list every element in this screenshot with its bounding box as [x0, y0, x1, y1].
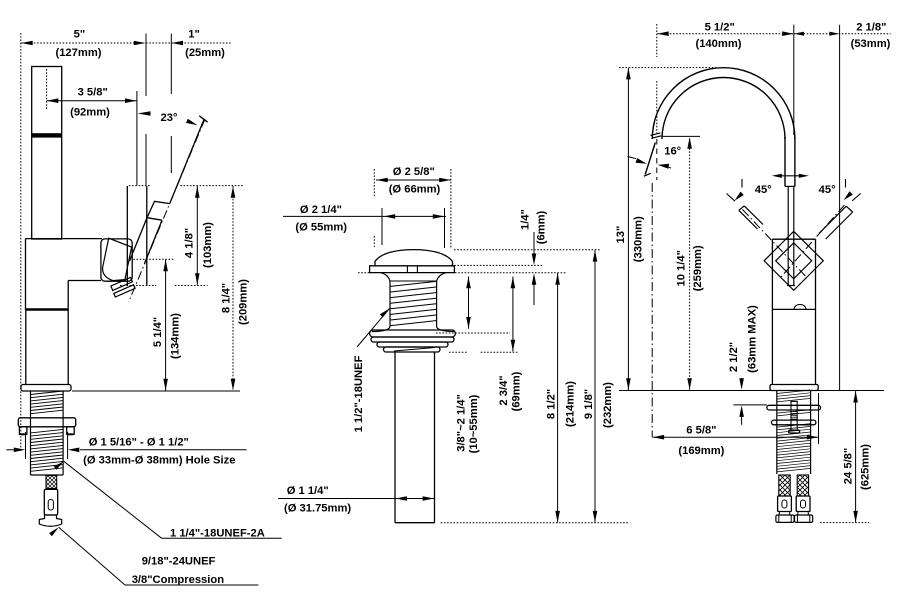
fig1 dim 4-1/8 line [196, 186, 198, 285]
fig3 gooseneck inner arc [662, 78, 785, 140]
fig2 dim 2-5/8 line [376, 179, 451, 181]
fig3 spout tip break lines [651, 133, 661, 136]
fig1 hole size tick left [25, 432, 27, 459]
fig3 left hose connector [778, 496, 792, 512]
svg-text:(Ø 66mm): (Ø 66mm) [389, 184, 441, 196]
fig1 extension line x146 [145, 34, 147, 97]
svg-text:(140mm): (140mm) [695, 38, 741, 50]
fig1 dim 3-5/8 right arrow [125, 98, 137, 103]
svg-text:(232mm): (232mm) [602, 382, 614, 428]
fig1 threaded shank hatch [31, 391, 64, 471]
fig1 dim 5-inch right arrow [134, 41, 146, 46]
fig1 shank bottom edge [31, 474, 64, 476]
fig1 dim 3-5/8 line [47, 100, 137, 102]
fig2 locknut bell right [437, 327, 454, 332]
fig2 ext line left dashed [373, 169, 375, 196]
svg-text:1 1/4"-18UNEF-2A: 1 1/4"-18UNEF-2A [170, 527, 265, 539]
fig1 hole size dim line right [80, 449, 247, 451]
fig1 dim 5-1/4 line [165, 260, 167, 391]
fig1 leader compression line [59, 527, 125, 585]
svg-text:13": 13" [615, 226, 627, 244]
svg-text:(53mm): (53mm) [851, 38, 891, 50]
fig3 base plate [770, 385, 818, 391]
fig3 dim 6-5/8 line [652, 436, 818, 438]
fig3 left connector slot [782, 500, 787, 508]
fig3 riser stem cap [787, 285, 795, 287]
fig2 collar ref dashed y352 [449, 351, 467, 353]
fig3 spout tip solid edge [645, 143, 655, 175]
svg-text:(63mm MAX): (63mm MAX) [747, 305, 759, 373]
fig1 locknut left ear [19, 427, 27, 435]
fig1 ref dashed line y285.5 left [120, 285, 156, 287]
fig2 locknut ring4 [384, 347, 441, 352]
fig2 ext line right dashed [450, 169, 452, 248]
fig1 compression cap [39, 515, 61, 526]
svg-text:(10~55mm): (10~55mm) [468, 394, 480, 453]
svg-text:1 1/2"-18UNEF: 1 1/2"-18UNEF [353, 355, 365, 432]
fig1 left extension line [20, 33, 22, 450]
fig3 45deg left handle cap [739, 206, 745, 210]
fig3 left ext dashed [656, 24, 658, 57]
fig2 thread body top [390, 280, 437, 282]
fig3 apex ref dashed line [619, 67, 717, 69]
fig1 base column [25, 310, 27, 385]
fig1 connector slot [48, 500, 53, 511]
fig3 deck line [619, 390, 884, 392]
svg-text:5 1/2": 5 1/2" [705, 21, 735, 33]
fig3 spout center ext line [793, 25, 795, 135]
fig3 riser outer right [794, 137, 796, 186]
fig1 deck line [72, 390, 240, 392]
svg-text:(Ø 31.75mm): (Ø 31.75mm) [284, 503, 351, 515]
fig3 swivel double arrow [777, 175, 806, 177]
svg-text:3 5/8": 3 5/8" [78, 87, 108, 99]
svg-text:(625mm): (625mm) [860, 444, 872, 490]
fig3 left hose end cap [776, 515, 794, 522]
fig2 dim 2-1/4 leader line [283, 215, 446, 217]
svg-text:3/8"~2 1/4": 3/8"~2 1/4" [456, 394, 468, 452]
fig3 riser joint cap [785, 185, 795, 187]
svg-text:10 1/4": 10 1/4" [676, 250, 688, 286]
svg-text:9 1/8": 9 1/8" [583, 389, 595, 419]
fig1 handle grip tilted [103, 238, 132, 280]
svg-text:(134mm): (134mm) [170, 313, 182, 359]
fig2 dome rod slot [406, 266, 408, 273]
fig1 lever break kink [147, 201, 170, 220]
fig1 dim 3-5/8 left arrow [47, 98, 59, 103]
fig3 45deg left arrow [735, 192, 744, 201]
fig1 locknut ear feet [21, 433, 26, 435]
fig1 hole size dim line left [6, 449, 14, 451]
fig3 bracket bar upper [767, 405, 821, 410]
fig2 dome apex ref dashed [454, 249, 600, 251]
fig3 shank thread hatch [777, 390, 811, 472]
fig1 threaded shank outline [30, 391, 32, 475]
fig2 bottom ref dashed [441, 522, 630, 524]
fig3 45deg right handle edges [826, 212, 853, 239]
fig1 extension line x137 [136, 91, 138, 185]
fig1 dim 1-inch arrow [172, 41, 184, 46]
fig2 dim 1-1/4 line [278, 498, 434, 500]
fig2 tail tube [394, 352, 396, 523]
fig3 inner diamond [776, 243, 812, 279]
fig2 dim 1/4 lower arrow [533, 284, 535, 305]
fig2 dim 3/8-2-1/4 line [468, 277, 470, 329]
fig2 locknut thread glimpse [394, 348, 435, 352]
svg-text:8 1/2": 8 1/2" [546, 389, 558, 419]
fig3 spout centerline dash-dot [651, 183, 653, 437]
fig2 neck flare [381, 273, 390, 281]
fig3 outer diamond [764, 231, 823, 290]
fig3 left hose braid [779, 475, 790, 496]
fig3 dim 5-1/2 line [657, 33, 794, 35]
svg-text:(169mm): (169mm) [678, 445, 724, 457]
fig1 ref dashed line y285.5 right [175, 285, 208, 287]
fig1 handle valve housing right edge [146, 186, 148, 286]
svg-text:45°: 45° [755, 184, 772, 196]
svg-text:9/18"-24UNEF: 9/18"-24UNEF [142, 555, 216, 567]
fig3 bottom ref dashed [820, 522, 869, 524]
fig1 dim 1-inch line [146, 42, 231, 44]
fig1 handle square [101, 239, 132, 281]
fig1 lever top cap [199, 116, 207, 122]
fig1 ref dashed line y259 [133, 258, 174, 260]
fig3 base plate ext line [818, 393, 820, 444]
fig3 bracket bar lower [772, 420, 816, 425]
fig1 body top edge [26, 238, 103, 240]
fig1 ref dashed line y185.6 right [180, 185, 243, 187]
fig2 leader 18UNEF line [357, 309, 390, 348]
fig3 dim 2-1/8 line [794, 33, 891, 35]
fig1 handle foot bar2 [114, 285, 135, 297]
svg-text:3/8"Compression: 3/8"Compression [132, 574, 225, 586]
fig3 right hose braid [797, 475, 808, 496]
fig1 leader UNEF-2A line [64, 461, 162, 538]
fig1 locknut right ear [67, 427, 75, 435]
svg-text:Ø 1 5/16" - Ø 1 1/2": Ø 1 5/16" - Ø 1 1/2" [89, 436, 189, 448]
svg-text:1/4": 1/4" [520, 209, 532, 230]
fig3 right hose end cap [795, 515, 813, 522]
fig2 flange top line right [451, 264, 542, 266]
fig1 locknut bar [18, 418, 75, 427]
fig3 dim 2-1/2 ext tick [733, 404, 767, 406]
svg-text:(259mm): (259mm) [692, 245, 704, 291]
fig3 gooseneck outer arc [652, 68, 795, 139]
fig3 dim 2-1/2 lower arrow [741, 411, 743, 425]
fig3 right ext line [839, 25, 841, 390]
fig2 collar ref dashed y333 [436, 332, 510, 334]
fig3 45deg left cross line [727, 194, 736, 202]
svg-text:5": 5" [74, 29, 86, 41]
fig3 45deg right axis [781, 205, 845, 277]
fig1 body step edge [68, 280, 101, 282]
fig1 dim 5-inch left arrow [21, 41, 33, 46]
fig1 spout column [32, 67, 62, 240]
svg-text:45°: 45° [819, 184, 836, 196]
fig1 dim 8-1/4 line [232, 186, 234, 391]
svg-text:5 1/4": 5 1/4" [152, 317, 164, 347]
fig2 ext line 2-1/4 left [381, 208, 383, 245]
fig1 base flange [21, 385, 71, 392]
fig1 lever lower edges [130, 218, 148, 261]
fig3 riser inner right [784, 137, 786, 186]
svg-text:4 1/8": 4 1/8" [183, 228, 195, 258]
svg-text:24 5/8": 24 5/8" [843, 448, 855, 484]
fig2 deck line left [358, 272, 369, 274]
fig1 leader UNEF-2A arrow [54, 461, 64, 469]
fig2 locknut ring3 [377, 342, 448, 347]
svg-text:(92mm): (92mm) [70, 107, 110, 119]
fig3 right connector slot [801, 500, 806, 508]
svg-text:2 3/4": 2 3/4" [498, 375, 510, 405]
fig1 column centerline [46, 69, 48, 110]
svg-text:(25mm): (25mm) [185, 47, 225, 59]
fig3 dim 13 line [627, 68, 629, 390]
fig1 handle valve housing left edge [126, 186, 128, 286]
fig1 lever axis dash-dot [129, 119, 205, 302]
svg-text:(330mm): (330mm) [633, 216, 645, 262]
fig1 dim 5-inch line [21, 42, 145, 44]
fig3 45deg left axis [743, 210, 807, 277]
fig3 16deg left arrow [628, 157, 637, 159]
fig1 hole size tick right [67, 432, 69, 459]
fig1 23deg arrow at vertical [138, 111, 151, 116]
svg-text:1": 1" [188, 29, 200, 41]
fig3 45deg right arrow [844, 191, 853, 200]
fig3 bracket screw base [789, 430, 800, 433]
fig3 dim 24-5/8 line [855, 391, 857, 522]
svg-text:2 1/8": 2 1/8" [856, 21, 886, 33]
fig1 leader compression arrow [49, 527, 59, 536]
fig2 dim 1/4 upper arrow [533, 232, 535, 254]
svg-text:(6mm): (6mm) [535, 210, 547, 244]
fig2 thread body outline [389, 281, 391, 327]
fig3 left hose step ring [779, 512, 789, 516]
fig2 dome base plate [370, 266, 455, 273]
fig2 locknut ring1 [370, 330, 456, 337]
fig2 dim 2-3/4 line [512, 277, 514, 352]
svg-text:16°: 16° [664, 146, 681, 158]
fig3 45deg right label stub [845, 179, 847, 188]
fig1 body left edge [25, 239, 27, 310]
fig3 right hose connector [796, 496, 810, 512]
fig1 handle foot bar1 [111, 277, 132, 290]
fig2 leader 18UNEF arrow [380, 309, 390, 318]
svg-text:(Ø 33mm-Ø 38mm) Hole Size: (Ø 33mm-Ø 38mm) Hole Size [83, 454, 235, 466]
svg-text:6 5/8": 6 5/8" [686, 424, 716, 436]
fig3 riser stem [787, 186, 789, 285]
svg-text:(69mm): (69mm) [511, 371, 523, 411]
fig3 45deg left handle edges [744, 206, 763, 225]
fig3 tip ref tick line [663, 135, 700, 137]
fig2 locknut bell left [372, 327, 390, 332]
fig3 right hose step ring [798, 512, 808, 516]
fig3 16deg vertical dashed line [656, 139, 658, 180]
fig1 extension line x171 [170, 34, 172, 95]
fig2 dim 9-1/8 line [594, 250, 596, 523]
fig1 lever top edge [170, 120, 204, 204]
svg-text:2 1/2": 2 1/2" [728, 342, 740, 372]
svg-text:(Ø 55mm): (Ø 55mm) [295, 222, 347, 234]
fig3 bracket screw [791, 401, 797, 430]
fig1 23deg arrow at lever [189, 122, 194, 124]
fig3 45deg left label stub [741, 179, 743, 188]
svg-text:(103mm): (103mm) [202, 222, 214, 268]
fig3 body joint line [772, 308, 815, 310]
fig3 45deg right handle cap [846, 206, 853, 212]
fig2 thread hatch [391, 281, 437, 325]
fig3 dim 2-1/2 upper arrow [741, 378, 743, 380]
fig3 shank outline [776, 391, 778, 474]
fig3 dim 10-1/4 line [689, 139, 691, 391]
fig3 16deg right arrow [669, 166, 671, 169]
svg-text:Ø 2 1/4": Ø 2 1/4" [300, 204, 342, 216]
fig3 spout tip end cap [644, 173, 651, 176]
fig1 supply connector [44, 489, 57, 515]
fig2 ext line 2-1/4 right [444, 208, 446, 248]
svg-text:(209mm): (209mm) [238, 279, 250, 325]
fig1 body joint line [26, 308, 68, 310]
fig2 dome cap [375, 250, 453, 266]
svg-text:23°: 23° [161, 112, 178, 124]
fig3 body joint bump [794, 305, 806, 310]
svg-text:Ø 1 1/4": Ø 1 1/4" [287, 485, 329, 497]
fig2 locknut ring2 [371, 337, 454, 342]
svg-text:Ø 2 5/8": Ø 2 5/8" [393, 166, 435, 178]
fig2 deck line right [455, 272, 567, 274]
fig2 tail tube bottom [395, 522, 435, 524]
fig1 knurled nipple [46, 476, 57, 489]
fig1 ref dashed line y185.6 left [129, 185, 150, 187]
fig3 valve body [771, 239, 773, 384]
fig1 spout column band [32, 133, 62, 137]
svg-text:8 1/4": 8 1/4" [221, 283, 233, 313]
fig3 45deg right cross line [852, 193, 861, 201]
fig2 dim 8-1/2 line [557, 273, 559, 523]
svg-text:(214mm): (214mm) [565, 381, 577, 427]
svg-text:(127mm): (127mm) [55, 47, 101, 59]
